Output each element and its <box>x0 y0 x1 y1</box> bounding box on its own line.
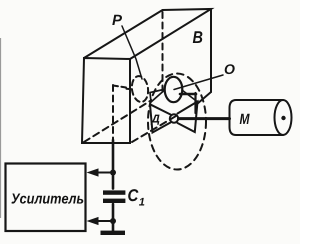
box B hidden bottom-left depth edge (dashed) <box>84 101 150 142</box>
box B front face <box>82 58 130 143</box>
label Усилитель <box>11 194 83 204</box>
label M <box>240 114 250 124</box>
wire to bottom arrow <box>97 220 113 222</box>
bracket vertical <box>194 93 196 113</box>
box B bottom-right edge visible part <box>197 92 211 104</box>
left wing of vane <box>150 104 171 132</box>
left arm wedge <box>150 90 164 103</box>
crystal plate P dashed ellipse <box>130 75 149 103</box>
label B <box>193 31 203 43</box>
box B hidden back bottom edge <box>180 93 196 96</box>
ring-to-wing link <box>182 90 197 102</box>
label C1 <box>128 189 144 205</box>
label O <box>225 64 235 74</box>
top arrowhead <box>87 168 99 176</box>
hidden plate left edge (dashed vertical) <box>112 85 114 139</box>
bottom arrowhead <box>87 217 99 225</box>
box B hidden bottom-right depth edge (dashed) <box>132 116 176 142</box>
capacitor C1 bottom plate <box>103 199 125 203</box>
motor M body <box>230 100 284 135</box>
ring O <box>165 77 183 102</box>
wire to top arrow <box>97 172 113 174</box>
leader line from P to plate <box>122 26 142 79</box>
amplifier box <box>6 164 86 232</box>
box B top face edges <box>84 9 211 59</box>
right wing of vane <box>178 102 198 133</box>
leader line from O to ring <box>174 75 223 90</box>
wire from box to capacitor <box>112 140 115 189</box>
scan edge artifact <box>0 38 2 218</box>
motor end cap <box>275 100 292 135</box>
junction dot top <box>110 170 116 176</box>
box B hidden back-left vertical edge (dashed) <box>162 12 164 95</box>
motor shaft end dot <box>281 116 285 120</box>
capacitor C1 top plate <box>103 190 125 194</box>
plate tick <box>127 88 133 91</box>
motor shaft <box>179 117 230 120</box>
chopper disc dashed ellipse <box>148 74 206 170</box>
hidden plate top edge (dashed horizontal) <box>113 86 126 88</box>
bottom terminal bar <box>101 231 126 235</box>
junction dot bottom <box>110 218 116 224</box>
hub circle <box>170 114 178 122</box>
wire capacitor to bottom bar <box>112 204 115 231</box>
label P <box>112 15 122 25</box>
label Д <box>151 115 160 125</box>
box B right back vertical edge <box>210 9 212 92</box>
